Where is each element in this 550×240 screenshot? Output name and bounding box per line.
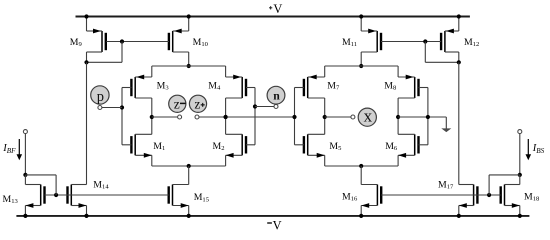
- junction M12 source on +V rail: [457, 14, 461, 18]
- wire M6 drain up: [397, 117, 399, 134]
- transistor M13: [25, 185, 44, 208]
- transistor M4: [226, 75, 246, 98]
- wire M6 gate lead: [419, 144, 428, 146]
- wire +V supply rail: [76, 16, 470, 18]
- junction p gate node: [120, 105, 124, 109]
- wire IBS node to gate bus: [489, 174, 520, 176]
- terminal x: [351, 115, 355, 119]
- ground: [441, 128, 451, 132]
- wire M7 gate lead: [295, 87, 304, 89]
- wire M12 source to +V: [458, 17, 460, 32]
- transistor M9: [87, 29, 106, 52]
- current arrow IBS: [526, 139, 532, 160]
- wire M3 source up: [151, 66, 153, 77]
- wire x terminal: [325, 116, 351, 118]
- node x: [358, 106, 376, 126]
- wire M9 drain: [86, 52, 88, 62]
- junction M8 gate node: [426, 115, 430, 119]
- junction M18 source on -V rail: [518, 214, 522, 218]
- wire M9 source to +V: [86, 17, 88, 32]
- transistor M3: [131, 75, 151, 98]
- junction M15 source on -V rail: [187, 214, 191, 218]
- wire IBF input: [24, 134, 26, 175]
- wire M5 drain up: [324, 117, 326, 134]
- wire M9-M10 gate: [106, 41, 169, 43]
- junction M13 source on -V rail: [23, 214, 27, 218]
- wire -V supply rail: [16, 215, 529, 217]
- junction M11 drain to pair sources: [359, 64, 363, 68]
- junction M9 source on +V rail: [84, 14, 88, 18]
- wire M15 source to -V: [188, 206, 190, 216]
- wire M4-M2 gate column: [254, 88, 256, 145]
- wire M3 gate lead: [122, 87, 131, 89]
- svg-text:z: z: [194, 97, 200, 112]
- wire M8 gate lead: [419, 87, 428, 89]
- junction stage2 tail node: [359, 164, 363, 168]
- wire M16 source to -V: [360, 206, 362, 216]
- wire stage1 source rail: [152, 65, 226, 67]
- wire M6 source to tail: [397, 155, 399, 166]
- label +V: [269, 7, 272, 9]
- junction M10 source on +V rail: [187, 14, 191, 18]
- wire M4 source up: [225, 66, 227, 77]
- wire M5 source to tail: [324, 155, 326, 166]
- svg-text:n: n: [273, 88, 280, 102]
- wire M2 gate lead: [246, 144, 255, 146]
- svg-text:z: z: [174, 97, 180, 112]
- wire IBS node to M18 drain: [519, 175, 521, 185]
- wire M11 drain: [360, 52, 362, 66]
- wire M7 source up: [324, 66, 326, 77]
- wire IBF node to gate bus: [25, 174, 56, 176]
- svg-text:x: x: [364, 106, 373, 125]
- wire M3-M1 gate column: [121, 88, 123, 145]
- transistor M10: [169, 29, 189, 52]
- terminal z+: [195, 115, 199, 119]
- junction M9 gate node: [120, 39, 124, 43]
- wire z+ to second stage gates: [199, 116, 295, 118]
- junction M17 source on -V rail: [457, 214, 461, 218]
- node p: [91, 86, 109, 105]
- wire M7-M5 gate column: [294, 88, 296, 145]
- wire M12 drain: [458, 52, 460, 62]
- wire IBS input: [519, 134, 521, 175]
- wire IBF node to M13 drain: [24, 175, 26, 185]
- wire tail to M16 drain: [360, 166, 362, 185]
- junction M13 gate node: [54, 193, 58, 197]
- junction x node: [323, 115, 327, 119]
- wire M8 source up: [397, 66, 399, 77]
- wire M8 diode tie to gates and ground: [398, 116, 446, 118]
- transistor M1: [131, 134, 151, 157]
- wire M2 drain up: [225, 117, 227, 134]
- transistor M7: [304, 75, 325, 98]
- wire right bias gate bus: [381, 194, 501, 196]
- terminal z-: [178, 115, 182, 119]
- junction M10 drain to pair sources: [187, 64, 191, 68]
- wire n terminal: [255, 106, 274, 108]
- node n: [267, 86, 285, 104]
- wire M9 diode connection: [121, 42, 123, 63]
- wire M2 source to tail: [225, 155, 227, 166]
- wire M5 gate lead: [295, 144, 304, 146]
- wire z- terminal: [152, 116, 178, 118]
- svg-text:V: V: [273, 219, 282, 233]
- transistor M6: [398, 134, 418, 157]
- wire ground drop: [445, 117, 447, 129]
- wire M11 source to +V: [360, 17, 362, 32]
- transistor M8: [398, 75, 418, 98]
- node z-: [169, 95, 186, 112]
- wire M1 source to tail: [151, 155, 153, 166]
- junction M9 drain node: [84, 60, 88, 64]
- terminal p: [98, 106, 102, 110]
- wire M14 source to -V: [86, 206, 88, 216]
- transistor M11: [361, 29, 381, 52]
- node z+: [189, 95, 206, 112]
- current arrow IBF: [17, 139, 23, 160]
- wire M12 diode connection: [424, 42, 426, 63]
- wire left bias gate bus: [45, 194, 169, 196]
- transistor M5: [304, 134, 325, 157]
- wire M4 drain down: [225, 98, 227, 117]
- transistor M12: [441, 29, 459, 52]
- terminal n: [274, 105, 278, 109]
- wire M10 source to +V: [188, 17, 190, 32]
- junction stage2 input gate node: [292, 115, 296, 119]
- junction M14 source on -V rail: [84, 214, 88, 218]
- wire M3 drain down: [151, 98, 153, 117]
- transistor M2: [226, 134, 246, 157]
- junction z- node: [150, 115, 154, 119]
- transistor M17: [459, 185, 478, 208]
- wire M8 drain down: [397, 98, 399, 117]
- transistor M18: [501, 185, 520, 208]
- junction M12 drain node: [457, 60, 461, 64]
- wire M12 drain to M17 drain: [458, 62, 460, 184]
- transistor M16: [361, 185, 381, 208]
- transistor M14: [68, 185, 87, 208]
- junction n gate node: [253, 104, 257, 108]
- wire M4 gate lead: [246, 87, 255, 89]
- svg-text:V: V: [273, 2, 282, 16]
- junction z+ drain node: [224, 115, 228, 119]
- wire M1 drain up: [151, 117, 153, 134]
- junction M16 source on -V rail: [359, 214, 363, 218]
- wire M13 source to -V: [24, 206, 26, 216]
- wire M10 drain: [188, 52, 190, 66]
- node B IBS node: [518, 173, 522, 177]
- wire M7 drain down: [324, 98, 326, 117]
- terminal IBF: [23, 130, 27, 134]
- junction M11 source on +V rail: [359, 14, 363, 18]
- wire stage2 source rail: [325, 65, 398, 67]
- junction M8 drain node: [396, 115, 400, 119]
- wire M17 source to -V: [458, 206, 460, 216]
- svg-text:p: p: [97, 89, 104, 105]
- junction z+ node: [224, 115, 228, 119]
- node A IBF node: [23, 173, 27, 177]
- wire tail to M15 drain: [188, 166, 190, 185]
- wire M1 gate lead: [122, 144, 131, 146]
- junction M12 gate node: [423, 39, 427, 43]
- wire M11-M12 gate: [381, 41, 441, 43]
- label -V: [267, 222, 272, 224]
- junction stage1 tail node: [187, 164, 191, 168]
- terminal IBS: [518, 130, 522, 134]
- wire M8-M6 gate column: [427, 88, 429, 145]
- wire p terminal: [102, 107, 122, 109]
- wire M18 source to -V: [519, 206, 521, 216]
- transistor M15: [169, 185, 189, 208]
- junction M18 gate node: [487, 193, 491, 197]
- wire M9 drain to M14 drain: [86, 62, 88, 184]
